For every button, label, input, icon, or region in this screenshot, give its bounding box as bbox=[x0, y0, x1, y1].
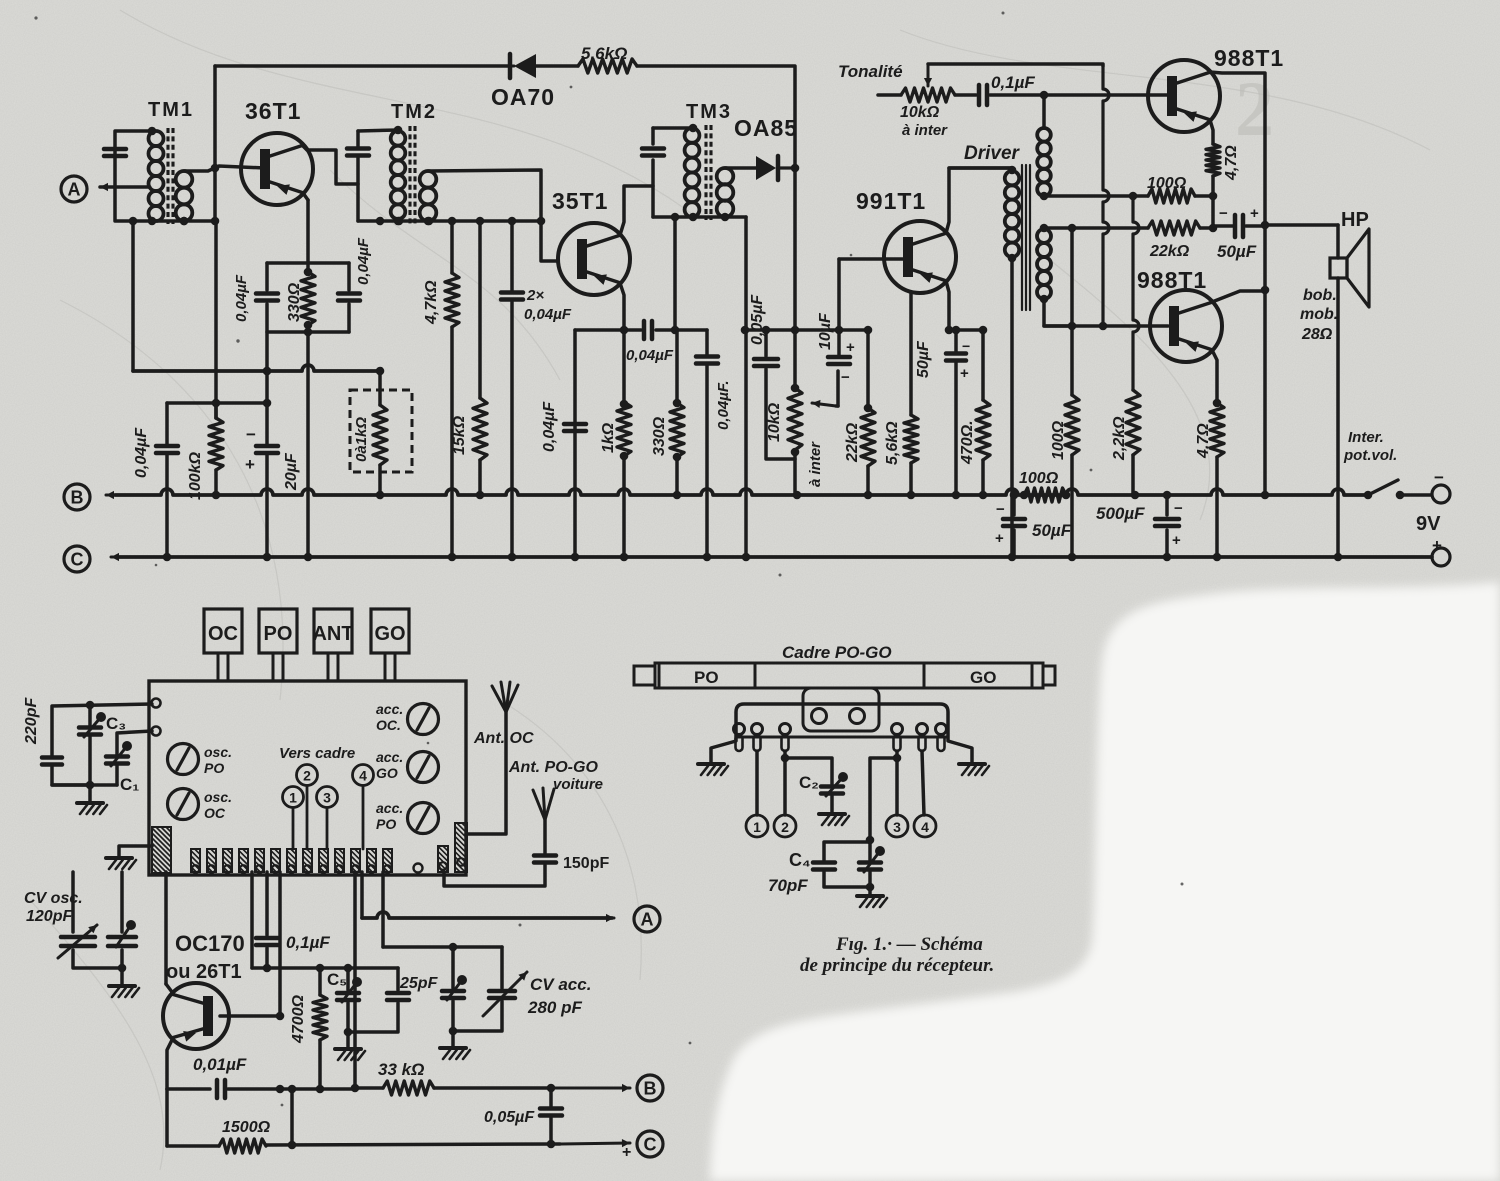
wire emitter bracket bbox=[267, 261, 349, 265]
svg-text:3: 3 bbox=[323, 790, 331, 806]
svg-text:OC170: OC170 bbox=[175, 931, 245, 956]
svg-text:3: 3 bbox=[893, 819, 901, 835]
wire TM3 left branch bbox=[651, 128, 655, 144]
junction detector bbox=[791, 164, 800, 173]
svg-text:osc.: osc. bbox=[204, 789, 232, 805]
transformer TM2 secondary bbox=[420, 171, 437, 188]
terminal A bbox=[61, 176, 87, 202]
transformer TM1 secondary bbox=[176, 171, 193, 188]
ground C5 bbox=[346, 1032, 350, 1048]
svg-text:2,2kΩ: 2,2kΩ bbox=[1111, 416, 1128, 461]
white cut-out region bbox=[710, 582, 1500, 1181]
svg-text:2×: 2× bbox=[526, 287, 544, 304]
svg-text:4,7Ω: 4,7Ω bbox=[1195, 423, 1212, 459]
capacitor 50uF emitter bbox=[954, 330, 958, 352]
svg-text:TM3: TM3 bbox=[686, 101, 732, 123]
svg-text:330Ω: 330Ω bbox=[286, 282, 303, 322]
svg-text:0,1µF: 0,1µF bbox=[286, 933, 330, 952]
capacitor C5 trimmer bbox=[346, 968, 350, 990]
capacitor 10uF bbox=[837, 330, 841, 356]
potentiometer 10k volume bbox=[788, 388, 802, 450]
terminal 9V plus bbox=[1432, 548, 1450, 566]
svg-text:0,1µF: 0,1µF bbox=[991, 73, 1035, 92]
transformer TM2 core bbox=[408, 126, 411, 224]
svg-text:100kΩ: 100kΩ bbox=[187, 451, 204, 500]
wire lower base rail bbox=[1044, 324, 1168, 328]
svg-text:220pF: 220pF bbox=[23, 697, 40, 745]
svg-text:0,05µF: 0,05µF bbox=[484, 1109, 535, 1126]
capacitor CV acc bbox=[500, 947, 504, 988]
terminal A bottom bbox=[634, 906, 660, 932]
svg-text:mob.: mob. bbox=[1300, 306, 1338, 323]
cadre loop wire bbox=[711, 704, 972, 763]
capacitor C2 bbox=[785, 758, 832, 784]
capacitor 0,04uF x707 bbox=[705, 330, 709, 356]
svg-text:0,04µF: 0,04µF bbox=[524, 306, 572, 323]
svg-text:acc.: acc. bbox=[376, 800, 403, 816]
wire osc bottom rail bbox=[167, 1087, 210, 1091]
wire pin4 to node3 bbox=[895, 751, 899, 815]
resistor 5,6k lower bbox=[909, 293, 913, 415]
transformer driver primary bbox=[949, 166, 1012, 170]
antenna Ant OC bbox=[466, 712, 506, 834]
svg-text:OC: OC bbox=[208, 623, 238, 645]
wire 35T1 collector bbox=[620, 186, 653, 235]
capacitor 0,1uF bbox=[955, 93, 976, 97]
svg-text:5,6kΩ: 5,6kΩ bbox=[581, 44, 627, 63]
wire pin1 to node1 bbox=[755, 751, 759, 815]
wire OC170 base bbox=[220, 1014, 280, 1018]
svg-text:10kΩ: 10kΩ bbox=[900, 104, 940, 121]
svg-text:C₃: C₃ bbox=[106, 714, 126, 733]
capacitor C4 bbox=[870, 758, 897, 840]
wire x1072 bbox=[1070, 228, 1074, 326]
node 4 cadre bbox=[914, 815, 936, 837]
svg-text:70pF: 70pF bbox=[768, 876, 808, 895]
svg-text:GO: GO bbox=[374, 623, 405, 645]
svg-text:280 pF: 280 pF bbox=[527, 998, 582, 1017]
wire TM3 sec bottom down bbox=[744, 217, 748, 557]
svg-text:Fıg. 1.· — Schéma: Fıg. 1.· — Schéma bbox=[835, 934, 983, 955]
capacitor C1 trimmer bbox=[117, 731, 152, 756]
capacitor 25pF bbox=[396, 968, 400, 990]
svg-text:−: − bbox=[841, 369, 850, 386]
svg-text:50µF: 50µF bbox=[1032, 521, 1072, 540]
wire to C bottom bbox=[560, 1143, 630, 1144]
ground cadre right bbox=[959, 762, 985, 766]
resistor 15k bbox=[478, 221, 482, 398]
capacitor TM2 tuning bbox=[347, 146, 369, 151]
svg-text:2: 2 bbox=[781, 819, 789, 835]
wire pin5 to node4 bbox=[922, 751, 924, 815]
bus line C bbox=[111, 556, 145, 559]
svg-text:4: 4 bbox=[921, 819, 929, 835]
svg-text:B: B bbox=[71, 488, 84, 508]
rod coil PO bbox=[659, 663, 755, 688]
wire 33k rail bbox=[353, 872, 357, 1088]
transformer driver sec lower bbox=[1040, 224, 1049, 233]
potentiometer tonalite bbox=[901, 88, 955, 102]
diode OA70 bbox=[514, 54, 536, 78]
wire x795 vertical bbox=[793, 168, 797, 388]
svg-text:B: B bbox=[644, 1079, 657, 1099]
wire 988T1 upper collector bbox=[1210, 72, 1265, 495]
svg-text:OA70: OA70 bbox=[491, 84, 555, 110]
svg-text:36T1: 36T1 bbox=[245, 98, 301, 124]
svg-text:25pF: 25pF bbox=[399, 975, 439, 992]
resistor 330 bbox=[675, 330, 679, 403]
capacitor 50uF rail bbox=[1012, 495, 1016, 515]
wire TM1 sec top to 36T1 base bbox=[184, 166, 265, 171]
svg-text:0,04µF.: 0,04µF. bbox=[715, 380, 732, 430]
svg-text:10kΩ: 10kΩ bbox=[766, 402, 783, 442]
svg-text:991T1: 991T1 bbox=[856, 188, 926, 214]
resistor 22k lower bbox=[1148, 221, 1200, 235]
svg-text:pot.vol.: pot.vol. bbox=[1343, 447, 1397, 464]
capacitor 0,05uF det bbox=[764, 330, 768, 356]
svg-text:22kΩ: 22kΩ bbox=[1149, 243, 1190, 260]
capacitor 0,1uF osc bbox=[265, 872, 269, 935]
capacitor 50uF output bbox=[1213, 224, 1233, 228]
capacitor C3 trimmer bbox=[88, 705, 92, 727]
capacitor 500uF bbox=[1165, 495, 1169, 515]
wire emitter rail 991 bbox=[949, 328, 983, 332]
resistor 4,7k bbox=[450, 221, 454, 273]
svg-text:à inter: à inter bbox=[902, 122, 948, 139]
transformer TM3 core bbox=[704, 125, 707, 220]
wire TM2 left branch bbox=[356, 131, 360, 146]
ground C2 bbox=[819, 812, 845, 816]
svg-text:0à1kΩ: 0à1kΩ bbox=[353, 417, 370, 462]
ground CV acc bbox=[451, 1031, 455, 1047]
resistor 100 in B bbox=[1024, 488, 1066, 502]
wire x1103 bbox=[1103, 66, 1109, 326]
svg-text:4,7Ω: 4,7Ω bbox=[1223, 145, 1240, 181]
transformer TM1 primary bbox=[149, 131, 164, 146]
wire OC170 collector bbox=[166, 984, 172, 992]
wire pin2 to node2 bbox=[783, 751, 787, 815]
svg-text:C: C bbox=[71, 550, 84, 570]
svg-text:+: + bbox=[846, 339, 855, 356]
svg-text:4700Ω: 4700Ω bbox=[290, 994, 307, 1044]
capacitor 2x0,04uF bbox=[510, 221, 514, 292]
potentiometer tonalite wiper bbox=[927, 64, 930, 86]
svg-text:Tonalité: Tonalité bbox=[838, 62, 903, 81]
cadre pins bbox=[734, 724, 745, 735]
wire emitter junction bbox=[1211, 196, 1215, 228]
wire cvosc ground bbox=[73, 950, 122, 968]
svg-text:de principe du récepteur.: de principe du récepteur. bbox=[800, 955, 994, 976]
wire driver primary down bbox=[1010, 258, 1014, 557]
svg-text:+: + bbox=[245, 455, 255, 474]
wire TM2 bottom rail bbox=[358, 219, 541, 223]
wire 35T1 emitter bbox=[620, 283, 624, 330]
resistor 4,7 lower bbox=[1210, 403, 1224, 457]
terminal 9V minus bbox=[1432, 485, 1450, 503]
capacitor trimmer osc bbox=[108, 935, 136, 940]
tuner pin strip bbox=[152, 827, 171, 873]
capacitor 0,04uF agc bbox=[165, 403, 169, 446]
svg-text:0,01µF: 0,01µF bbox=[193, 1055, 247, 1074]
resistor 330 emitter bbox=[301, 272, 315, 325]
svg-text:GO: GO bbox=[376, 765, 398, 781]
wire 988T1 upper emitter bbox=[1210, 120, 1213, 144]
svg-text:à inter: à inter bbox=[807, 441, 824, 487]
svg-text:1: 1 bbox=[289, 790, 297, 806]
node 2 cadre bbox=[774, 815, 796, 837]
capacitor trimmer acc bbox=[451, 947, 455, 988]
capacitor 150pF bbox=[534, 853, 556, 858]
terminal block left2 bbox=[152, 727, 161, 736]
capacitor 0,05uF bottom bbox=[549, 1088, 553, 1106]
svg-text:TM2: TM2 bbox=[391, 101, 437, 123]
wire acc rail bbox=[381, 872, 385, 947]
svg-text:GO: GO bbox=[970, 668, 996, 687]
adjust knobs bbox=[168, 744, 199, 775]
svg-text:20µF: 20µF bbox=[283, 452, 300, 491]
svg-text:OC: OC bbox=[204, 805, 226, 821]
svg-text:1500Ω: 1500Ω bbox=[222, 1119, 271, 1136]
svg-text:HP: HP bbox=[1341, 209, 1369, 231]
svg-text:5,6kΩ: 5,6kΩ bbox=[884, 421, 901, 465]
resistor 5,6k top bbox=[578, 59, 637, 73]
svg-text:ANT: ANT bbox=[312, 623, 353, 645]
wire switch to battery bbox=[1400, 493, 1431, 497]
svg-text:Vers cadre: Vers cadre bbox=[279, 745, 355, 762]
svg-text:OC.: OC. bbox=[376, 717, 401, 733]
svg-text:−: − bbox=[1174, 500, 1183, 517]
svg-text:2: 2 bbox=[303, 768, 311, 784]
wire osc rail bbox=[250, 872, 254, 968]
svg-text:PO: PO bbox=[376, 816, 396, 832]
svg-text:+: + bbox=[1432, 536, 1442, 555]
svg-text:C: C bbox=[644, 1135, 657, 1155]
svg-text:0,04µF: 0,04µF bbox=[133, 427, 150, 478]
wire TM3 bottom rail bbox=[653, 215, 746, 219]
junction dots on C bbox=[163, 553, 172, 562]
junction AGC bbox=[263, 367, 272, 376]
svg-text:C₁: C₁ bbox=[120, 775, 139, 794]
wire A input arrow bbox=[100, 186, 150, 189]
svg-text:150pF: 150pF bbox=[563, 855, 609, 872]
transformer TM3 secondary bbox=[717, 168, 734, 185]
terminal C bbox=[64, 546, 90, 572]
wire 988T1 lower collector bbox=[1212, 291, 1265, 302]
rod bracket bbox=[803, 688, 879, 731]
terminal block left1 bbox=[152, 699, 161, 708]
capacitor 0,04uF x575 bbox=[573, 330, 577, 557]
wire 991T1 emitter bbox=[946, 281, 949, 330]
terminal B bottom bbox=[637, 1075, 663, 1101]
svg-text:Driver: Driver bbox=[964, 143, 1021, 164]
svg-text:−: − bbox=[962, 338, 970, 354]
svg-text:22kΩ: 22kΩ bbox=[844, 422, 861, 463]
wire vertical x215 bbox=[213, 66, 217, 221]
svg-text:osc.: osc. bbox=[204, 744, 232, 760]
svg-text:PO: PO bbox=[694, 668, 719, 687]
capacitor CV osc bbox=[61, 935, 95, 940]
svg-text:0,04µF: 0,04µF bbox=[541, 401, 558, 452]
svg-text:−: − bbox=[246, 425, 256, 444]
transistor 988T1 lower bbox=[1150, 290, 1222, 362]
transistor 988T1 upper bbox=[1148, 60, 1220, 132]
wire A tap bbox=[100, 185, 148, 189]
junction TM1 bottom bbox=[129, 217, 138, 226]
junction dots on B bbox=[212, 491, 221, 500]
wire TM2 sec top to 35T1 base bbox=[428, 170, 557, 261]
resistor 2,2k bbox=[1133, 196, 1139, 390]
svg-text:−: − bbox=[1219, 205, 1228, 222]
svg-text:+: + bbox=[1172, 532, 1181, 549]
svg-text:0,04µF: 0,04µF bbox=[355, 237, 372, 285]
svg-text:4: 4 bbox=[359, 768, 367, 784]
svg-text:2: 2 bbox=[1235, 65, 1274, 152]
svg-text:Inter.: Inter. bbox=[1348, 429, 1384, 446]
svg-text:0,04µF: 0,04µF bbox=[233, 274, 250, 322]
antenna Ant PO-GO bbox=[543, 820, 547, 853]
resistor 4700 bbox=[318, 968, 322, 995]
nodes 1 2 3 4 bbox=[283, 787, 304, 808]
svg-text:35T1: 35T1 bbox=[552, 188, 608, 214]
svg-text:+: + bbox=[622, 1144, 631, 1161]
transformer TM1 core bbox=[166, 128, 169, 224]
speaker HP bbox=[1330, 258, 1347, 278]
svg-text:1: 1 bbox=[753, 819, 761, 835]
svg-text:C₄: C₄ bbox=[789, 850, 811, 870]
resistor 22k bbox=[866, 330, 870, 408]
svg-text:+: + bbox=[960, 365, 969, 382]
wire driver tap upper bbox=[1044, 194, 1148, 198]
svg-text:+: + bbox=[1250, 205, 1259, 222]
transistor 35T1 bbox=[558, 223, 630, 295]
svg-text:33 kΩ: 33 kΩ bbox=[378, 1060, 424, 1079]
capacitor 220pF bbox=[52, 704, 152, 756]
rod coil GO bbox=[924, 663, 1032, 688]
capacitor 0,04uF series bbox=[642, 321, 647, 339]
diode OA85 bbox=[725, 166, 756, 170]
wire 991T1 collector bbox=[946, 168, 1012, 233]
resistor 100k agc bbox=[214, 403, 218, 418]
svg-text:Ant. PO-GO: Ant. PO-GO bbox=[508, 759, 598, 776]
wire detector rail bbox=[745, 328, 868, 332]
capacitor 0,04uF emitter right bbox=[347, 263, 351, 290]
svg-text:TM1: TM1 bbox=[148, 99, 194, 121]
svg-text:100Ω: 100Ω bbox=[1147, 175, 1187, 192]
wire 35T1 emitter up x675 bbox=[673, 217, 677, 330]
svg-text:C₅: C₅ bbox=[327, 970, 347, 989]
svg-text:−: − bbox=[1434, 468, 1444, 487]
svg-text:10µF: 10µF bbox=[817, 312, 834, 350]
transformer TM1 primary cap branch bbox=[115, 131, 215, 221]
resistor 1k bbox=[622, 330, 626, 402]
wire 36T1 collector bbox=[303, 146, 358, 184]
transistor 36T1 bbox=[241, 133, 313, 205]
svg-text:4,7kΩ: 4,7kΩ bbox=[423, 280, 440, 325]
wire 36T1 emitter bbox=[303, 193, 308, 200]
transformer driver core bbox=[1021, 165, 1023, 310]
svg-text:9V: 9V bbox=[1416, 513, 1441, 535]
wire 991T1 base bbox=[839, 257, 904, 261]
svg-text:ou 26T1: ou 26T1 bbox=[166, 961, 242, 983]
svg-text:voiture: voiture bbox=[553, 776, 603, 793]
svg-text:988T1: 988T1 bbox=[1137, 267, 1207, 293]
potentiometer wiper volume bbox=[812, 403, 836, 406]
wire 988T1 lower emitter bbox=[1212, 350, 1217, 403]
svg-text:A: A bbox=[68, 180, 81, 200]
svg-text:28Ω: 28Ω bbox=[1301, 326, 1333, 343]
svg-text:50µF: 50µF bbox=[915, 340, 932, 378]
wire pin to cvosc bbox=[71, 872, 75, 932]
wire to B bottom bbox=[551, 1087, 630, 1090]
terminal C bottom bbox=[637, 1131, 663, 1157]
svg-text:acc.: acc. bbox=[376, 701, 403, 717]
capacitor 0,04uF emitter left bbox=[265, 263, 269, 290]
ferrite rod bbox=[655, 663, 1043, 688]
tuner block outline bbox=[149, 681, 466, 875]
svg-text:330Ω: 330Ω bbox=[651, 416, 668, 456]
svg-text:100Ω: 100Ω bbox=[1050, 420, 1067, 460]
node 1 cadre bbox=[746, 815, 768, 837]
wire emitter rail 330 bbox=[575, 328, 641, 332]
wire collector up bbox=[164, 872, 168, 984]
wire to speaker bbox=[1265, 223, 1338, 227]
bus line B bbox=[106, 494, 140, 497]
svg-text:Cadre PO-GO: Cadre PO-GO bbox=[782, 643, 892, 662]
svg-text:OA85: OA85 bbox=[734, 115, 798, 141]
svg-text:C₂: C₂ bbox=[799, 773, 819, 792]
svg-text:bob.: bob. bbox=[1303, 287, 1337, 304]
svg-text:1kΩ: 1kΩ bbox=[600, 422, 617, 453]
wire driver sec bottom bbox=[1044, 299, 1072, 326]
wire top rail bbox=[215, 64, 508, 68]
svg-text:CV acc.: CV acc. bbox=[530, 975, 591, 994]
transformer TM3 primary bbox=[685, 128, 700, 143]
resistor 470 bbox=[981, 330, 985, 400]
svg-text:0,05µF: 0,05µF bbox=[749, 294, 766, 345]
svg-text:Ant. OC: Ant. OC bbox=[473, 730, 534, 747]
svg-text:acc.: acc. bbox=[376, 749, 403, 765]
ground cadre left bbox=[698, 762, 724, 766]
switch inter bbox=[1364, 491, 1373, 500]
node 3 cadre bbox=[886, 815, 908, 837]
resistor 0a1k bbox=[378, 371, 382, 405]
resistor 0a1k dashed box bbox=[350, 390, 412, 472]
wire AGC horizontal bbox=[133, 365, 381, 371]
svg-text:50µF: 50µF bbox=[1217, 242, 1257, 261]
svg-text:+: + bbox=[995, 530, 1004, 547]
svg-text:988T1: 988T1 bbox=[1214, 45, 1284, 71]
resistor 1500 bbox=[165, 1089, 169, 1146]
transformer TM2 primary bbox=[391, 131, 406, 146]
svg-text:CV osc.: CV osc. bbox=[24, 890, 83, 907]
wire OC170 emitter bbox=[167, 1040, 172, 1089]
wire x292 link bbox=[290, 1089, 294, 1145]
resistor 4,7 upper bbox=[1206, 144, 1220, 176]
cadre pin rail bbox=[736, 736, 948, 739]
ground tuner left bbox=[119, 846, 152, 857]
capacitor 20uF electrolytic bbox=[265, 371, 269, 445]
wire to A bbox=[360, 872, 364, 918]
wire base up bbox=[278, 872, 282, 1016]
transformer driver sec upper bbox=[1042, 95, 1046, 128]
svg-text:−: − bbox=[996, 501, 1005, 518]
ground C4 bbox=[868, 887, 872, 895]
svg-text:A: A bbox=[641, 910, 654, 930]
svg-text:PO: PO bbox=[264, 623, 293, 645]
resistor 33k bbox=[383, 1081, 434, 1095]
svg-text:15kΩ: 15kΩ bbox=[451, 415, 468, 455]
svg-text:100Ω: 100Ω bbox=[1019, 470, 1059, 487]
